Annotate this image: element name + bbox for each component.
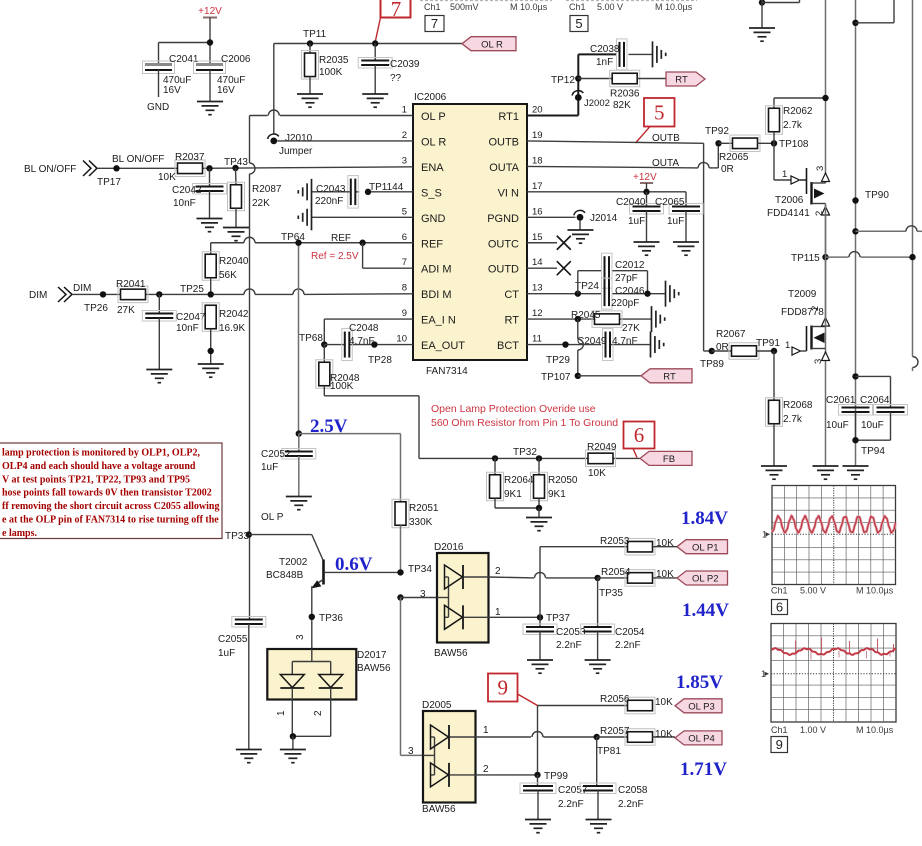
test point TP1144 [365,182,404,195]
label OLP [261,512,284,523]
svg-text:R2068: R2068 [783,400,813,411]
test point TP37 [537,613,571,624]
svg-text:D2016: D2016 [434,542,464,553]
svg-text:27K: 27K [117,305,135,316]
svg-text:BCT: BCT [497,340,519,352]
label 1.84V [681,508,728,529]
svg-text:22K: 22K [252,198,270,209]
svg-text:e at the OLP pin of FAN7314 to: e at the OLP pin of FAN7314 to rise turn… [2,515,219,526]
svg-text:TP108: TP108 [779,139,809,150]
resistor R2048 [316,345,360,396]
ground (C2047) [146,370,172,383]
svg-text:J2002: J2002 [584,98,610,109]
svg-text:27pF: 27pF [615,273,638,284]
svg-text:OL R: OL R [481,39,503,50]
svg-text:7: 7 [402,257,407,268]
svg-text:TP37: TP37 [546,613,570,624]
svg-text:R2064: R2064 [504,475,534,486]
ground (R2042) [198,364,224,377]
label D2016 pin3 [420,589,426,600]
svg-text:8: 8 [402,283,407,294]
test point TP115 [791,252,916,264]
svg-text:TP34: TP34 [408,564,432,575]
svg-text:C2053: C2053 [556,627,586,638]
svg-text:6: 6 [402,232,407,243]
svg-text:C2065: C2065 [655,197,685,208]
wire pin14 OUTD [527,267,557,269]
svg-text:18: 18 [532,155,543,166]
svg-text:ADI M: ADI M [421,264,452,276]
ground (R2068) [761,466,787,479]
svg-text:TP91: TP91 [756,338,780,349]
node top right [852,0,894,26]
svg-text:TP11: TP11 [303,29,327,40]
wire OUTA [527,143,718,168]
svg-text:10: 10 [396,334,407,345]
svg-text:16.9K: 16.9K [219,323,245,334]
svg-text:500mV: 500mV [450,2,479,12]
svg-text:OL P: OL P [421,111,446,123]
transistor Q T2002 BC848B [266,557,401,649]
svg-text:FDD8778: FDD8778 [781,307,824,318]
ground (R2087) [223,228,249,241]
svg-text:10uF: 10uF [826,420,849,431]
resistor R2064 [487,458,534,508]
svg-text:Open Lamp Protection Overide u: Open Lamp Protection Overide use [431,403,596,415]
wire R2053-R2054 right [653,546,678,548]
resistor R2054 [598,567,677,586]
capacitor C2053 [523,617,586,659]
svg-text:RT: RT [675,75,688,86]
capacitor C2040 [616,192,664,242]
svg-text:2: 2 [495,566,501,577]
test point TP90 [852,190,889,204]
svg-text:C2064: C2064 [860,395,890,406]
svg-text:EA_OUT: EA_OUT [421,340,465,352]
net tag FB [640,451,692,465]
svg-text:C2042: C2042 [172,185,202,196]
callout box 9 (red) [488,674,518,702]
test point TP91 [756,338,780,354]
svg-text:10K: 10K [655,697,673,708]
svg-text:2.2nF: 2.2nF [615,640,641,651]
capacitor C2012 [602,253,645,288]
svg-text:C2040: C2040 [616,197,646,208]
test point TP107 [541,372,581,383]
wire FB row [419,457,640,459]
svg-text:9K1: 9K1 [548,489,566,500]
svg-text:560 Ohm Resistor from Pin 1 To: 560 Ohm Resistor from Pin 1 To Ground [431,417,618,429]
svg-text:1uF: 1uF [218,648,235,659]
svg-text:BAW56: BAW56 [434,648,468,659]
callout box 7 (red) [381,0,411,21]
capacitor C2039 [358,44,420,95]
capacitor C2046 [602,278,645,309]
svg-text:IC2006: IC2006 [414,92,447,103]
label open lamp overide [431,403,618,429]
svg-text:TP115: TP115 [791,253,820,264]
svg-text:100K: 100K [319,67,343,78]
wire REF down (TP64 vertical) [298,246,300,434]
svg-text:14: 14 [532,257,543,268]
wire pin12 RT [527,318,652,320]
scope plot 6 (waveform) [762,486,896,585]
svg-text:EA_I N: EA_I N [421,315,456,327]
svg-text:10nF: 10nF [173,198,196,209]
svg-text:2: 2 [814,211,825,216]
svg-text:1: 1 [495,607,501,618]
ground (RT row, pointing right) [652,306,665,332]
resistor R2040 [202,252,249,294]
svg-text:1: 1 [785,340,790,351]
svg-text:9: 9 [402,308,407,319]
node junction C2047 [156,291,162,297]
wire R2064/R2050 to ground [495,505,542,517]
svg-text:FB: FB [663,454,675,465]
svg-text:3: 3 [813,359,824,364]
svg-text:1uF: 1uF [667,216,684,227]
svg-text:R2054: R2054 [601,567,631,578]
capacitor C2061 [826,395,873,440]
svg-text:C2038: C2038 [590,44,620,55]
svg-text:2: 2 [402,130,407,141]
svg-text:R2065: R2065 [719,152,749,163]
svg-text:C2048: C2048 [349,323,379,334]
svg-text:2.7k: 2.7k [783,414,803,425]
wire vertical bus B (x=855.5) [855,0,857,466]
callout box 9 under scope [771,737,788,753]
capacitor C2042 [172,168,227,218]
svg-text:4.7nF: 4.7nF [349,336,375,347]
test point TP34 [397,564,432,576]
wire pin1 OLP [250,110,414,619]
ground (C2055) [236,750,262,763]
svg-text:Jumper: Jumper [279,146,313,157]
svg-text:OUTB: OUTB [488,136,519,148]
svg-text:3: 3 [295,634,306,640]
callout box 6 under scope [772,600,788,615]
svg-text:10K: 10K [655,729,673,740]
svg-text:OUTC: OUTC [488,238,519,250]
svg-text:5: 5 [402,206,407,217]
test point TP64 [281,232,305,246]
svg-text:100K: 100K [330,381,354,392]
op-amp U1 IC2006 FAN7314 controller [396,92,542,377]
svg-text:R2042: R2042 [219,309,249,320]
svg-text:TP90: TP90 [865,190,889,201]
svg-text:TP26: TP26 [84,303,108,314]
node junction C2042 [206,165,212,171]
svg-text:GND: GND [421,213,446,225]
svg-text:3: 3 [408,746,414,757]
node 2.5V [296,430,302,436]
callout box 6 (red) [624,422,655,449]
svg-text:TP64: TP64 [281,232,305,243]
svg-text:9: 9 [498,676,509,700]
svg-text:2.2nF: 2.2nF [556,640,582,651]
svg-text:D2017: D2017 [357,650,387,661]
svg-text:OL P4: OL P4 [688,734,715,745]
net tag RT (right) [666,72,705,86]
diode D2016 BAW56 [434,542,489,659]
svg-text:1uF: 1uF [628,216,645,227]
svg-text:R2087: R2087 [252,184,282,195]
svg-text:7: 7 [391,0,402,21]
svg-text:7: 7 [431,16,438,31]
test point TP89 [700,348,724,370]
svg-text:0R: 0R [716,342,729,353]
svg-text:R2041: R2041 [116,279,146,290]
svg-text:OL P1: OL P1 [692,542,719,553]
svg-text:R2040: R2040 [219,256,249,267]
resistor R2049 [586,442,617,479]
svg-text:10K: 10K [656,569,674,580]
node D2016 pin3 branch [397,594,437,600]
resistor R2051 [392,499,439,572]
test point TP17 [97,165,121,188]
resistor R2056 [600,694,673,714]
label D2016 pin1 [495,607,501,618]
resistor R2087 [228,168,282,227]
callout box 7 (black) [425,16,444,32]
resistor R2068 [766,351,813,466]
wire DIM [72,289,413,294]
svg-text:9K1: 9K1 [504,489,522,500]
transistor Q T2006 FDD4141 (P-MOSFET) [767,166,830,219]
ground (top right) [749,28,775,41]
svg-text:CT: CT [504,289,519,301]
svg-text:OL P2: OL P2 [692,574,719,585]
svg-text:hose points fall towards 0V th: hose points fall towards 0V then transis… [2,488,212,499]
node junction R2064 [492,455,498,461]
capacitor C2057 [520,775,588,819]
label OUTA [652,158,679,169]
svg-text:BL ON/OFF: BL ON/OFF [112,154,164,165]
input port BL ON/OFF [24,161,97,177]
svg-text:0.6V: 0.6V [335,554,373,575]
svg-text:ff removing the short circuit: ff removing the short circuit across C20… [2,501,219,512]
svg-text:56K: 56K [219,270,237,281]
svg-text:e lamps.: e lamps. [2,528,38,539]
scope plot 6 caption [771,586,894,596]
svg-text:R2062: R2062 [783,106,813,117]
svg-text:Ch1: Ch1 [771,725,788,735]
label DIM (net) [73,283,91,294]
ground (pin5 GND, pointing left) [298,204,311,230]
svg-text:TP12: TP12 [551,75,575,86]
test point TP68 [299,333,327,348]
svg-text:Ch1: Ch1 [771,586,788,596]
svg-text:TP29: TP29 [546,355,570,366]
node C2061 branch [852,373,890,407]
svg-text:ENA: ENA [421,162,444,174]
svg-text:TP94: TP94 [861,446,885,457]
svg-text:OL P3: OL P3 [688,701,715,712]
callout box 5 (red) [644,98,675,127]
wire TP107 to RT tag [578,375,641,377]
svg-text:TP107: TP107 [541,372,571,383]
ground (C2043, pointing left) [298,179,311,205]
svg-text:TP28: TP28 [368,355,392,366]
svg-text:R2049: R2049 [587,442,617,453]
test point TP25 [180,284,214,298]
svg-text:16V: 16V [163,85,181,96]
svg-text:1.44V: 1.44V [682,600,729,621]
svg-text:17: 17 [532,181,543,192]
wire pin10 EA_OUT [324,344,413,346]
ground (C2058) [586,820,612,833]
wire 2.5V to R2051 [299,434,401,502]
svg-text:220pF: 220pF [611,298,639,309]
ground (C2040) [634,242,660,255]
wire D2017 pin1 [276,700,292,737]
label OUTB [652,133,680,144]
capacitor C2006 [194,54,251,101]
svg-text:2.7k: 2.7k [783,120,803,131]
input port DIM [29,287,72,302]
ground (bus A) [813,466,839,479]
svg-text:2: 2 [483,764,489,775]
svg-text:R2053: R2053 [600,536,630,547]
svg-text:1.85V: 1.85V [676,672,723,693]
svg-text:0R: 0R [721,164,734,175]
svg-text:1: 1 [782,169,787,180]
svg-text:5.00 V: 5.00 V [800,586,826,596]
svg-text:TP25: TP25 [180,284,204,295]
callout box 5 (black) [570,16,588,32]
scope plot 9 (waveform) [761,624,896,723]
wire box9 vertical [537,706,539,775]
node bus junction y231 [852,226,922,235]
wire pin17 VIN [527,192,686,207]
net tag OL P3 [675,699,722,713]
svg-text:5.00 V: 5.00 V [597,2,623,12]
scope caption row 7 [420,1,552,12]
svg-text:OL R: OL R [421,136,446,148]
svg-text:R2057: R2057 [600,726,630,737]
ground (C2053) [527,660,553,673]
jumper J2014 [527,210,618,224]
wire TP33 to T2002 collector [249,535,323,561]
svg-text:R2051: R2051 [409,503,439,514]
svg-text:6: 6 [776,600,783,615]
svg-text:J2014: J2014 [590,213,618,224]
label Ref = 2.5V [311,251,359,262]
wire pin9 EA_IN [324,319,413,344]
resistor R2042 [202,303,249,364]
wire vertical bus A (x=825.5) [825,0,827,466]
capacitor C2054 [581,578,645,660]
svg-text:10nF: 10nF [176,323,199,334]
svg-text:1nF: 1nF [596,57,613,68]
label D2005 pin1 [483,725,489,736]
svg-text:R2036: R2036 [610,89,640,100]
svg-text:FAN7314: FAN7314 [426,366,468,377]
jumper J2002 [572,91,610,109]
label 1.44V [682,600,729,621]
test point TP12 [551,75,582,86]
svg-text:FDD4141: FDD4141 [767,208,810,219]
wire top gnd stub [759,0,800,28]
svg-text:REF: REF [331,233,351,244]
svg-text:1uF: 1uF [261,462,278,473]
capacitor C2047 [142,294,206,369]
capacitor C2052 [261,434,316,496]
resistor R2045 [571,310,640,334]
capacitor C2055 [218,617,266,750]
wire REF [211,237,413,255]
ground (C2057) [525,820,551,833]
wire pin20 RT1 [527,79,578,116]
svg-text:Ch1: Ch1 [569,2,586,12]
svg-text:C2055: C2055 [218,634,248,645]
wire pin13 CT [527,293,666,295]
red leader line (box 6) [633,449,637,458]
wire R2056 row [538,705,628,707]
svg-text:TP36: TP36 [319,613,343,624]
wire OLR node (TP11 row) [274,40,462,133]
svg-text:C2049: C2049 [577,336,607,347]
ground (C2054) [585,660,611,673]
label BL ON/OFF (net) [112,154,164,165]
svg-text:RT1: RT1 [498,111,519,123]
svg-text:TP68: TP68 [299,333,323,344]
scope caption row 5 [566,1,697,12]
svg-text:OUTA: OUTA [489,162,519,174]
wire TP37 up to R2053 row [540,547,628,618]
wire D2016 pin1 to TP37 [489,616,541,618]
svg-text:DIM: DIM [73,283,91,294]
test point TP35 [594,575,623,599]
test point TP28 [368,341,392,366]
svg-text:1.71V: 1.71V [680,759,727,780]
svg-text:TP99: TP99 [544,771,568,782]
svg-text:BC848B: BC848B [266,570,304,581]
svg-text:10K: 10K [158,172,176,183]
red leader line (box 9) [518,694,538,706]
svg-text:R2035: R2035 [319,55,349,66]
label D2017 pin3 [295,634,306,640]
capacitor C2038 [590,39,653,70]
svg-text:2.2nF: 2.2nF [618,799,644,810]
resistor R2065 [719,135,775,175]
svg-text:C2061: C2061 [826,395,856,406]
resistor R2041 [116,279,148,316]
resistor R2057 [597,726,675,745]
svg-text:10uF: 10uF [861,420,884,431]
wire pin4 S_S [355,191,413,193]
svg-text:5: 5 [654,100,665,124]
svg-text:27K: 27K [622,323,640,334]
svg-text:1: 1 [402,105,407,116]
resistor R2036 [578,70,666,111]
svg-text:6: 6 [634,423,645,447]
svg-text:TP17: TP17 [97,177,121,188]
wire pin15 OUTC [527,242,557,244]
svg-text:BDI M: BDI M [421,289,452,301]
svg-text:5: 5 [575,16,582,31]
test point TP43 [224,157,248,171]
capacitor C2043 [312,176,359,209]
svg-text:V at test points TP21, TP22, T: V at test points TP21, TP22, TP93 and TP… [2,474,190,485]
wire D2017 pin2 [293,700,331,737]
wire TP108 to T2006 gate [774,143,791,180]
svg-text:4.7nF: 4.7nF [612,336,638,347]
svg-text:C2041: C2041 [169,54,199,65]
svg-text:M 10.0µs: M 10.0µs [856,586,894,596]
net tag OL P4 [675,731,722,745]
svg-text:T2002: T2002 [279,557,308,568]
